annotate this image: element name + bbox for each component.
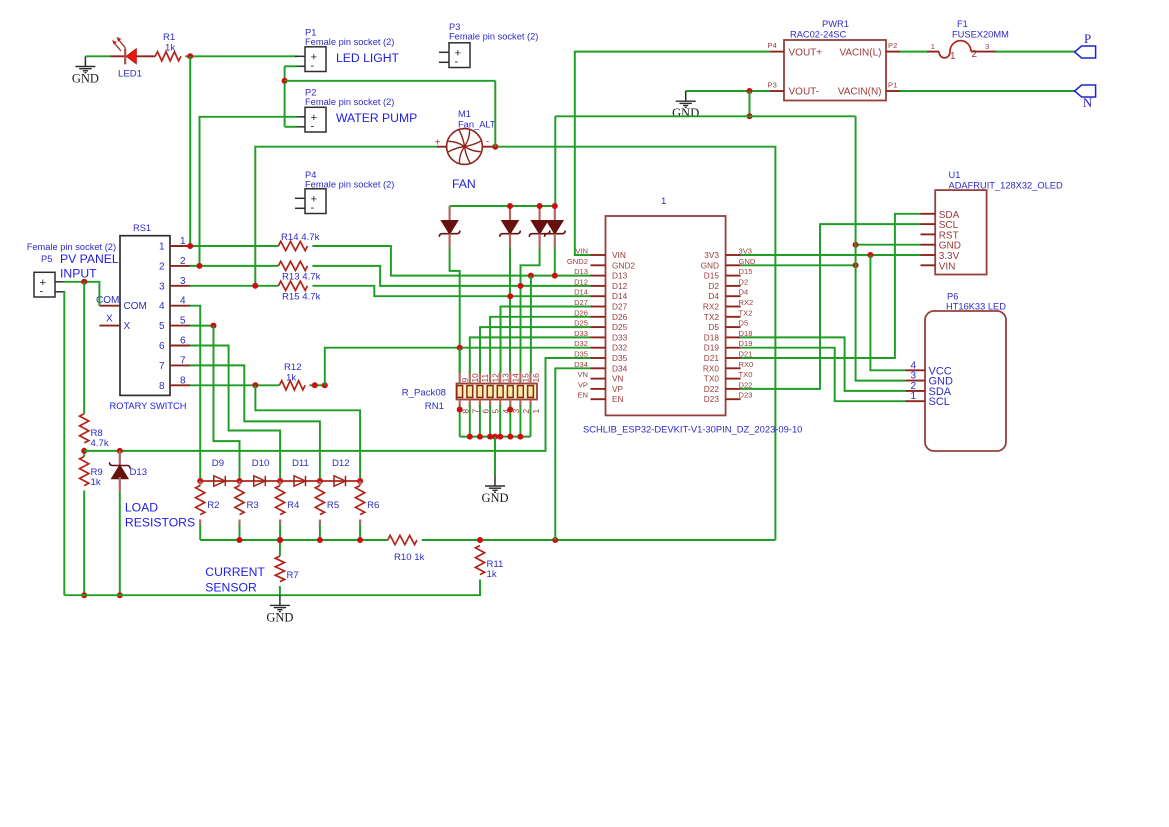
wire [489, 405, 491, 437]
node [237, 537, 243, 543]
node [477, 434, 483, 440]
svg-text:D21: D21 [704, 353, 720, 363]
resistor R6 [359, 481, 361, 486]
wire 3V3 [741, 254, 921, 256]
svg-text:D5: D5 [739, 319, 749, 328]
wire [359, 525, 361, 540]
wire [83, 491, 85, 596]
svg-text:11: 11 [480, 374, 490, 383]
pin 3 [509, 400, 511, 407]
svg-text:D27: D27 [612, 302, 628, 312]
svg-text:D15: D15 [739, 267, 753, 276]
node [497, 434, 503, 440]
wire [494, 81, 496, 147]
svg-text:GND: GND [701, 260, 719, 270]
svg-text:N: N [1083, 95, 1093, 110]
svg-text:RN1: RN1 [425, 401, 444, 412]
pin 2 [519, 400, 521, 407]
wire diode chain [200, 480, 360, 482]
pin X [99, 325, 120, 327]
node [552, 537, 558, 543]
pin 7 [469, 400, 471, 407]
svg-text:-: - [39, 286, 43, 298]
svg-text:EN: EN [577, 391, 588, 400]
svg-text:P4: P4 [768, 41, 777, 50]
svg-text:R10 1k: R10 1k [394, 552, 425, 563]
svg-text:SCL: SCL [929, 396, 950, 408]
svg-text:D26: D26 [612, 312, 628, 322]
node [81, 279, 87, 285]
svg-text:PWR1: PWR1 [822, 19, 849, 29]
diode top4 [545, 206, 566, 248]
wire diode3 down [521, 248, 540, 374]
wire D19 to P6 SCL [741, 348, 906, 402]
node [81, 592, 87, 598]
svg-text:VOUT+: VOUT+ [789, 47, 823, 58]
power module PWR1 [784, 40, 886, 101]
wire pin8 [190, 384, 279, 386]
svg-text:3: 3 [180, 276, 186, 287]
svg-text:7: 7 [159, 361, 165, 372]
pin RX2 [726, 306, 741, 308]
pin D13 [591, 275, 606, 277]
svg-text:FUSEX20MM: FUSEX20MM [952, 30, 1009, 40]
node [81, 448, 87, 454]
svg-text:D4: D4 [708, 291, 719, 301]
wire D26 net [490, 317, 590, 373]
ground [494, 476, 496, 487]
connector P4 [295, 189, 326, 214]
resistor R1 [155, 52, 181, 61]
pin 3V3 [726, 254, 741, 256]
svg-text:D12: D12 [612, 281, 628, 291]
resistor R9 [80, 457, 89, 486]
svg-text:8: 8 [180, 375, 186, 386]
svg-text:R13 4.7k: R13 4.7k [282, 272, 321, 283]
svg-text:X: X [106, 314, 113, 325]
pin VIN [921, 264, 936, 266]
wire R15 to D14 [312, 286, 590, 296]
wire D33 net [470, 337, 591, 373]
wire [479, 405, 481, 437]
wire [189, 56, 191, 246]
wire pin6 [190, 346, 280, 482]
svg-text:VIN: VIN [939, 261, 956, 272]
resistor R8 [80, 414, 89, 443]
svg-text:TX2: TX2 [704, 312, 720, 322]
svg-text:1: 1 [910, 391, 916, 402]
IC U1 OLED [935, 190, 986, 274]
node [492, 434, 498, 440]
svg-text:RAC02-24SC: RAC02-24SC [790, 30, 847, 40]
node [187, 53, 193, 59]
svg-text:1: 1 [661, 196, 666, 207]
diode top3 [529, 206, 550, 248]
wire R11 down [280, 580, 480, 596]
pin P1 [886, 90, 900, 92]
resistor R3 [238, 481, 240, 486]
node [747, 88, 753, 94]
pin VN [591, 378, 606, 380]
wire bottom rail [64, 594, 280, 596]
wire pin4 [190, 306, 200, 481]
resistor R4 [279, 481, 281, 486]
wire [459, 405, 461, 437]
node [517, 434, 523, 440]
svg-text:7: 7 [180, 355, 186, 366]
node [211, 323, 217, 329]
svg-text:X: X [124, 321, 131, 332]
svg-text:D12: D12 [332, 458, 350, 469]
svg-text:R14 4.7k: R14 4.7k [281, 232, 320, 243]
svg-text:INPUT: INPUT [60, 267, 97, 281]
pin SDA [921, 213, 936, 215]
svg-text:RESISTORS: RESISTORS [125, 516, 195, 530]
node [552, 273, 558, 279]
motor M1 fan [437, 129, 492, 165]
wire [284, 66, 286, 127]
pin D23 [726, 398, 741, 400]
resistor R10 [388, 535, 417, 544]
svg-text:RS1: RS1 [133, 223, 151, 233]
svg-text:D13: D13 [574, 267, 588, 276]
pin D32 [591, 347, 606, 349]
svg-text:4.7k: 4.7k [91, 438, 109, 449]
pin 3 GND [905, 380, 925, 382]
diode D10 [254, 476, 265, 486]
svg-text:P1: P1 [888, 81, 897, 90]
svg-text:HT16K33 LED: HT16K33 LED [946, 302, 1006, 312]
node [457, 407, 463, 413]
wire [200, 117, 298, 266]
wire R10 out [422, 539, 776, 541]
svg-text:EN: EN [612, 394, 624, 404]
pin D5 [726, 326, 741, 328]
pin VP [591, 388, 606, 390]
svg-text:U1: U1 [949, 170, 961, 180]
svg-text:D5: D5 [708, 322, 719, 332]
svg-text:RX0: RX0 [739, 360, 754, 369]
node [487, 434, 493, 440]
svg-text:RX0: RX0 [703, 363, 720, 373]
svg-text:8: 8 [159, 381, 165, 392]
svg-text:R15 4.7k: R15 4.7k [282, 292, 321, 303]
pin 12 [489, 372, 491, 384]
svg-text:2: 2 [180, 256, 186, 267]
pin D15 [726, 275, 741, 277]
rotary switch RS1 [120, 236, 170, 396]
wire D32 net col1 [459, 348, 461, 373]
wire U1 GND [856, 244, 921, 246]
svg-text:Female pin socket (2): Female pin socket (2) [449, 32, 538, 42]
wire D25 net [480, 327, 591, 373]
wire [554, 116, 556, 206]
wire diode1 to RN1 pin9 [450, 248, 460, 374]
pin D19 [726, 347, 741, 349]
svg-text:SCHLIB_ESP32-DEVKIT-V1-30PIN_D: SCHLIB_ESP32-DEVKIT-V1-30PIN_DZ_2023-09-… [583, 424, 802, 435]
svg-text:WATER PUMP: WATER PUMP [336, 111, 417, 125]
svg-text:4: 4 [180, 296, 186, 307]
resistor R7 [279, 540, 281, 556]
resistor R11 [475, 546, 484, 575]
node [197, 478, 203, 484]
svg-text:F1: F1 [957, 19, 968, 29]
node [252, 382, 258, 388]
svg-text:3: 3 [985, 42, 989, 51]
svg-text:1: 1 [159, 242, 165, 253]
pin D35 [591, 357, 606, 359]
pin GND [921, 244, 936, 246]
IC ESP32 devkit [606, 216, 726, 415]
wire GND row [741, 264, 856, 266]
ground [685, 91, 687, 101]
wire [519, 405, 521, 437]
IC P6 HT16K33 [925, 311, 1006, 451]
svg-text:1: 1 [531, 409, 541, 414]
resistor R13 [278, 261, 307, 270]
svg-text:ROTARY SWITCH: ROTARY SWITCH [110, 401, 187, 411]
svg-text:D25: D25 [612, 322, 628, 332]
pin GND [726, 264, 741, 266]
wire [85, 55, 110, 57]
svg-text:P4: P4 [305, 170, 316, 180]
wire pin5 [190, 325, 214, 327]
wire load rail [200, 539, 388, 541]
svg-text:D23: D23 [739, 391, 753, 400]
wire pin8 staircase [255, 385, 360, 481]
pin P4 [770, 51, 784, 53]
svg-text:P5: P5 [41, 254, 52, 264]
ground [84, 56, 86, 66]
svg-text:GND: GND [672, 106, 699, 120]
node [277, 537, 283, 543]
LED LED1 [111, 37, 156, 64]
svg-text:D33: D33 [612, 332, 628, 342]
wire D34 net [555, 368, 590, 540]
svg-text:TX2: TX2 [739, 308, 753, 317]
pin D34 [591, 367, 606, 369]
svg-text:P: P [1084, 31, 1091, 46]
svg-text:1: 1 [931, 42, 935, 51]
pin TX2 [726, 316, 741, 318]
svg-text:1: 1 [950, 51, 956, 62]
svg-text:FAN: FAN [452, 177, 476, 191]
svg-text:LOAD: LOAD [125, 501, 158, 515]
wire diode4 down [554, 248, 556, 276]
svg-text:Fan_ALT: Fan_ALT [458, 120, 496, 130]
svg-text:D2: D2 [708, 281, 719, 291]
diode top1 [439, 206, 460, 248]
node [357, 537, 363, 543]
wire R8 node rail [84, 358, 590, 451]
pin 5 [170, 325, 190, 327]
connector P2 [295, 107, 326, 132]
pin D2 [726, 285, 741, 287]
node [357, 478, 363, 484]
svg-text:D34: D34 [612, 363, 628, 373]
svg-text:LED LIGHT: LED LIGHT [336, 51, 400, 65]
svg-text:D18: D18 [704, 332, 720, 342]
diode D12 [334, 476, 346, 486]
node [322, 382, 328, 388]
pin 11 [479, 372, 481, 384]
svg-text:D13: D13 [612, 271, 628, 281]
node [117, 592, 123, 598]
pin D22 [726, 388, 741, 390]
wire [83, 448, 85, 457]
svg-text:-: - [310, 121, 314, 133]
svg-text:VACIN(N): VACIN(N) [838, 87, 882, 98]
connector P1 [295, 47, 326, 72]
wire diode2 down [509, 248, 511, 374]
wire gnd vertical [856, 116, 906, 380]
svg-text:VP: VP [578, 380, 588, 389]
pin 14 [509, 372, 511, 384]
resistor R15 [278, 281, 307, 290]
svg-text:R5: R5 [327, 500, 339, 511]
node [552, 203, 558, 209]
svg-text:2: 2 [972, 49, 978, 60]
node [117, 448, 123, 454]
resistor R5 [319, 481, 321, 486]
pin 4 [170, 305, 190, 307]
svg-text:Female pin socket (2): Female pin socket (2) [27, 242, 116, 252]
ground [279, 595, 281, 605]
wire D21 to U1 SDA [741, 214, 921, 358]
node [867, 252, 873, 258]
svg-text:1: 1 [180, 236, 186, 247]
node [467, 434, 473, 440]
svg-text:2: 2 [159, 261, 165, 272]
pin 3 [170, 285, 190, 287]
svg-text:P2: P2 [888, 41, 897, 50]
svg-text:D4: D4 [739, 288, 749, 297]
svg-text:GND: GND [266, 610, 293, 624]
svg-text:GND: GND [72, 72, 99, 86]
wire pin7 [190, 365, 320, 481]
node [457, 345, 463, 351]
wire [285, 65, 297, 67]
node [277, 537, 283, 543]
svg-text:D23: D23 [704, 394, 720, 404]
node [187, 243, 193, 249]
svg-text:1k: 1k [165, 43, 175, 54]
svg-text:VOUT-: VOUT- [789, 87, 820, 98]
svg-text:Female pin socket (2): Female pin socket (2) [305, 97, 394, 107]
flag P [1075, 46, 1096, 58]
wire [319, 525, 321, 540]
svg-text:5: 5 [180, 316, 186, 327]
pin D12 [591, 285, 606, 287]
svg-text:-: - [310, 202, 314, 214]
pin 8 [459, 400, 461, 407]
diode top2 [500, 206, 521, 248]
wire R12 to D32 [325, 348, 591, 386]
wire [530, 405, 532, 437]
zener D13 [110, 451, 131, 595]
node [853, 242, 859, 248]
wire [279, 525, 281, 540]
svg-text:2: 2 [521, 409, 531, 414]
svg-text:3: 3 [159, 281, 165, 292]
svg-text:12: 12 [490, 373, 500, 383]
pin P3 [770, 90, 784, 92]
svg-text:16: 16 [531, 373, 541, 383]
svg-text:TX0: TX0 [704, 374, 720, 384]
node [747, 113, 753, 119]
svg-text:P6: P6 [947, 292, 958, 302]
wire D27 net [501, 307, 591, 374]
wire [469, 405, 471, 437]
svg-text:VIN: VIN [575, 247, 588, 256]
pin D14 [591, 295, 606, 297]
wire P5- [63, 292, 64, 595]
wire pin3 [190, 285, 278, 287]
node [507, 293, 513, 299]
svg-text:D32: D32 [574, 339, 588, 348]
pin 8 [170, 384, 190, 386]
svg-text:7: 7 [470, 409, 480, 414]
node [507, 407, 513, 413]
svg-text:D19: D19 [704, 343, 720, 353]
svg-text:VIN: VIN [612, 250, 626, 260]
svg-text:R6: R6 [367, 500, 379, 511]
pin 4 VCC [905, 369, 925, 371]
svg-text:RX2: RX2 [703, 302, 720, 312]
svg-text:R4: R4 [287, 500, 300, 511]
wire pin5 drop [214, 326, 240, 481]
wire pin1 [190, 245, 278, 247]
svg-text:5: 5 [491, 409, 501, 414]
pin D21 [726, 357, 741, 359]
svg-text:-: - [454, 56, 458, 68]
pin D4 [726, 295, 741, 297]
resistor R2 [199, 481, 201, 486]
svg-text:1k: 1k [91, 477, 101, 488]
svg-text:R7: R7 [287, 570, 299, 581]
wire to gnd [494, 437, 496, 476]
pin 9 [459, 372, 461, 384]
wire [749, 91, 751, 116]
pin 1 [529, 400, 531, 407]
svg-text:P3: P3 [449, 22, 460, 32]
wire [499, 405, 501, 437]
connector P5 [34, 272, 65, 297]
svg-text:1k: 1k [286, 373, 296, 384]
wire D22 to U1 SCL [741, 224, 921, 389]
svg-text:VN: VN [612, 374, 624, 384]
node [507, 434, 513, 440]
svg-text:PV PANEL: PV PANEL [60, 252, 119, 266]
pin TX0 [726, 378, 741, 380]
pin 3.3V [921, 254, 936, 256]
svg-text:D35: D35 [612, 353, 628, 363]
node [197, 263, 203, 269]
svg-text:LED1: LED1 [118, 69, 142, 80]
pin 16 [529, 372, 531, 384]
wire N [900, 90, 1075, 92]
wire [509, 405, 511, 437]
svg-text:TX0: TX0 [739, 370, 753, 379]
svg-text:6: 6 [481, 409, 491, 414]
svg-text:6: 6 [159, 341, 165, 352]
svg-text:D35: D35 [574, 350, 588, 359]
pin RX0 [726, 367, 741, 369]
pin D33 [591, 336, 606, 338]
pin 10 [469, 372, 471, 384]
svg-text:9: 9 [460, 378, 470, 383]
pin 7 [170, 364, 190, 366]
